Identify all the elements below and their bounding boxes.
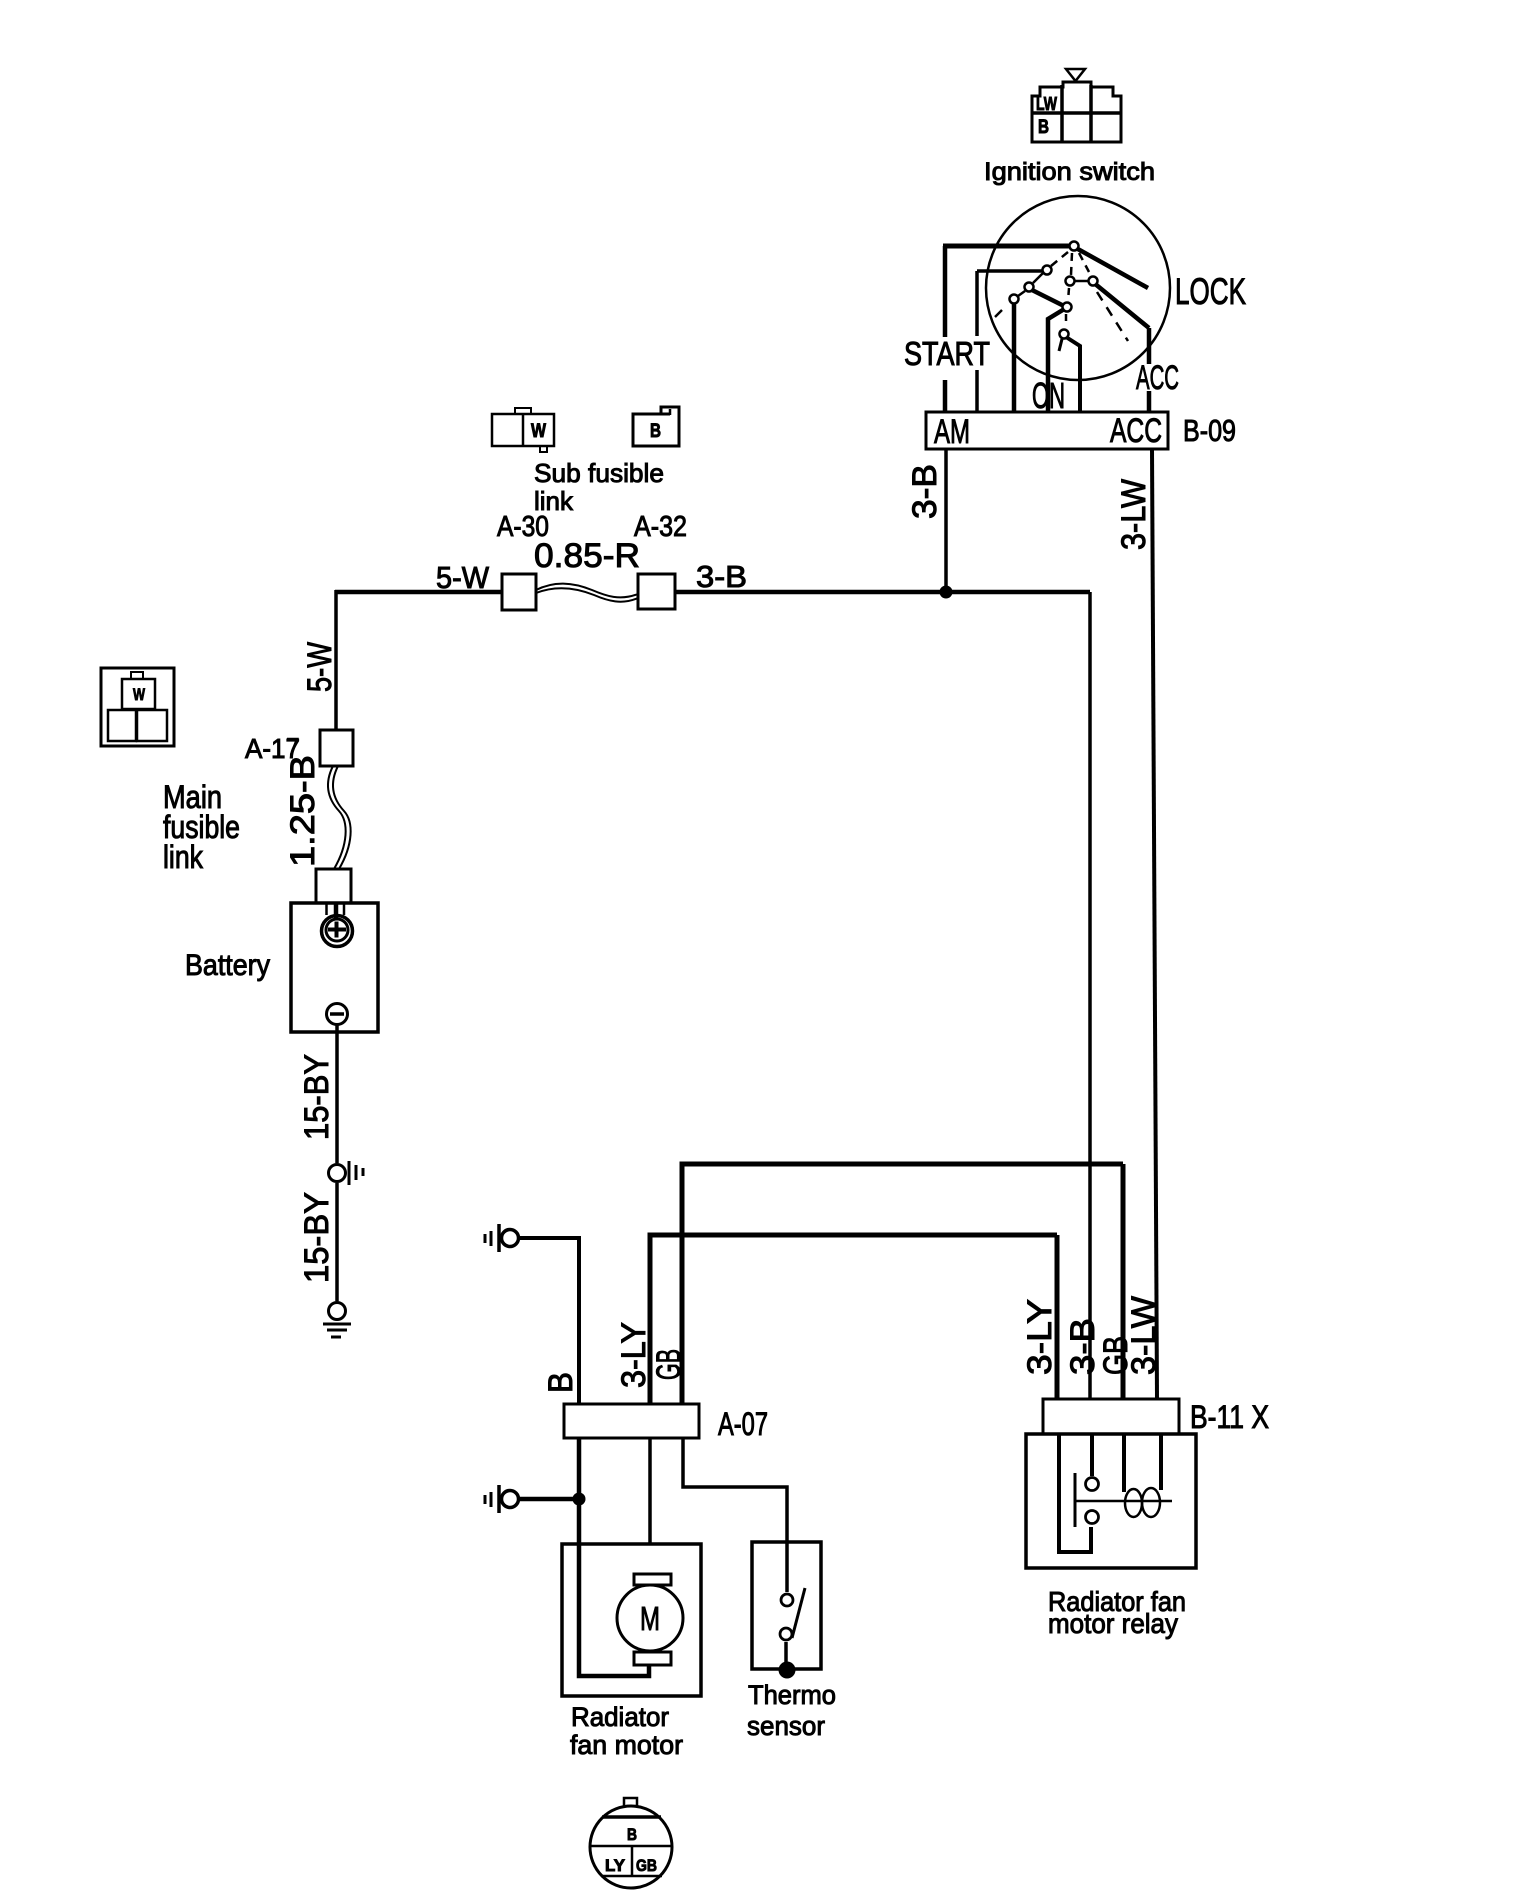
svg-text:B: B xyxy=(650,421,661,442)
svg-text:15-BY: 15-BY xyxy=(298,1054,336,1140)
wire to contact C2 xyxy=(977,269,1043,273)
wire B below A-07 xyxy=(577,1438,582,1546)
ignition switch body circle xyxy=(986,196,1170,380)
label Thermo sensor xyxy=(747,1680,836,1741)
junction node dot xyxy=(940,586,953,599)
wire lower contact to terminal xyxy=(784,1642,788,1662)
svg-text:3-B: 3-B xyxy=(696,559,747,594)
svg-text:ON: ON xyxy=(1032,375,1065,416)
wire GB to thermo sensor xyxy=(683,1438,787,1544)
thermo terminal dot xyxy=(779,1662,796,1679)
svg-text:15-BY: 15-BY xyxy=(298,1192,336,1283)
thermo sensor box xyxy=(752,1542,821,1669)
wire GB vertical to relay xyxy=(1121,1164,1126,1399)
svg-text:START: START xyxy=(904,335,990,372)
svg-text:B: B xyxy=(627,1825,637,1844)
wire AM vertical to B-09 (broken by START label) xyxy=(943,246,948,412)
svg-text:1.25-B: 1.25-B xyxy=(284,755,322,867)
wire ground to junction xyxy=(520,1497,579,1502)
contact C8 tail stub xyxy=(1059,339,1062,351)
relay wire 3-B to upper contact xyxy=(1090,1434,1094,1476)
svg-text:LW: LW xyxy=(1036,94,1057,114)
contact C8 xyxy=(1060,330,1069,339)
thermo switch upper contact xyxy=(781,1594,793,1606)
ACC pointer from contact C6 and vertical (broken by ACC label) xyxy=(1094,283,1149,412)
svg-text:link: link xyxy=(163,839,204,875)
fusible link A-30 box xyxy=(502,574,536,610)
radiator fan motor box xyxy=(562,1544,701,1696)
contact C1 xyxy=(1070,242,1079,251)
relay wire GB to coil xyxy=(1122,1434,1126,1492)
svg-text:ACC: ACC xyxy=(1110,412,1162,450)
dashed ACC position line xyxy=(1097,292,1128,341)
contact C3 xyxy=(1025,283,1034,292)
svg-text:A-32: A-32 xyxy=(634,511,687,543)
wire 3-LY horizontal and vertical to A-07 xyxy=(650,1235,1057,1404)
label Radiator fan motor xyxy=(570,1702,683,1760)
contact C4 xyxy=(1010,295,1019,304)
dashed link C5-C7 xyxy=(1068,288,1069,301)
wire 15-BY battery to ground xyxy=(335,1024,339,1163)
thermo switch blade xyxy=(792,1588,805,1638)
dashed tail from C4 xyxy=(995,310,1002,317)
connector A-07 box xyxy=(564,1404,699,1438)
wire 3-B from B-09 down to junction xyxy=(944,449,948,588)
wire 3-LW from B-09 down to relay xyxy=(1152,449,1157,1399)
connector (ignition switch) grid icon xyxy=(1032,82,1121,142)
wire 3-B vertical to relay xyxy=(1088,592,1092,1399)
svg-text:W: W xyxy=(531,421,546,442)
motor bottom terminal xyxy=(634,1652,671,1665)
wire AM feed (thick horizontal to contact) xyxy=(943,244,1071,249)
contact C7 xyxy=(1063,303,1072,312)
sub fusible link connector icon W xyxy=(492,408,554,452)
label Radiator fan motor relay xyxy=(1048,1586,1186,1639)
svg-text:B: B xyxy=(1038,117,1049,138)
relay upper contact xyxy=(1086,1478,1099,1491)
thermo switch lower contact xyxy=(780,1628,792,1640)
svg-text:Sub fusible: Sub fusible xyxy=(534,458,664,488)
svg-text:B-11 X: B-11 X xyxy=(1190,1399,1269,1435)
ground (body ground mid) xyxy=(329,1161,364,1185)
wire 15-BY to lower ground xyxy=(335,1183,339,1301)
svg-text:W: W xyxy=(133,685,146,704)
contact C2 xyxy=(1043,266,1052,275)
relay armature line xyxy=(1075,1500,1172,1503)
thin link C3-C4 xyxy=(1018,291,1025,296)
wire ON from contact C7 xyxy=(1048,308,1066,412)
svg-text:Thermo: Thermo xyxy=(748,1680,836,1710)
radiator fan motor relay K1 box xyxy=(1026,1434,1196,1568)
svg-text:B-09: B-09 xyxy=(1183,413,1236,448)
svg-text:3-LY: 3-LY xyxy=(615,1322,653,1388)
ground (fan motor lower) xyxy=(485,1485,519,1513)
svg-text:LY: LY xyxy=(605,1856,626,1875)
motor top terminal xyxy=(634,1574,671,1585)
battery B1 xyxy=(291,903,378,1032)
triangle marker on ignition connector xyxy=(1066,69,1085,81)
bottom connector circle icon xyxy=(589,1798,673,1888)
motor M1 circle xyxy=(617,1585,683,1651)
svg-text:5-W: 5-W xyxy=(301,642,339,692)
connector A-17 box xyxy=(320,730,353,766)
dashed line C1 to C2 xyxy=(1051,252,1068,266)
svg-text:3-B: 3-B xyxy=(906,464,944,519)
svg-text:ACC: ACC xyxy=(1136,359,1179,397)
ground (battery ground bottom) xyxy=(323,1303,351,1338)
fusible link A-32 box xyxy=(638,574,675,609)
contact C5 xyxy=(1066,277,1075,286)
stray scan mark xyxy=(287,739,297,755)
wire from contact C8 down to B-09 xyxy=(1066,337,1080,412)
dashed line C1 to C5 xyxy=(1071,253,1072,275)
svg-text:AM: AM xyxy=(934,413,970,451)
svg-text:GB: GB xyxy=(636,1856,657,1875)
relay wire 3-LY to lower contact xyxy=(1059,1434,1091,1552)
relay lower contact xyxy=(1086,1511,1099,1524)
svg-text:0.85-R: 0.85-R xyxy=(534,537,640,575)
ground (fan motor upper) xyxy=(485,1224,519,1252)
svg-text:B: B xyxy=(542,1372,580,1393)
svg-text:M: M xyxy=(640,1600,660,1637)
wire C4 vertical to B-09 xyxy=(1012,301,1017,412)
svg-text:LOCK: LOCK xyxy=(1175,271,1246,312)
connector B-11 X box xyxy=(1043,1399,1179,1434)
wire GB horizontal and vertical to A-07 xyxy=(682,1164,1123,1404)
wire 3-LY vertical to relay xyxy=(1055,1235,1060,1399)
wire 5-W vertical from battery xyxy=(334,590,338,730)
wire motor feed below A-07 xyxy=(648,1438,652,1574)
relay coil xyxy=(1125,1488,1160,1517)
svg-text:3-LY: 3-LY xyxy=(1021,1299,1059,1375)
relay wire 3-LW to coil xyxy=(1159,1434,1163,1490)
relay switch blade xyxy=(1074,1473,1077,1527)
junction node dot on B wire xyxy=(573,1493,586,1506)
svg-text:3-LW: 3-LW xyxy=(1125,1296,1163,1375)
wire B inside motor box xyxy=(579,1544,649,1676)
thin link C5-C6 xyxy=(1075,280,1088,283)
svg-text:link: link xyxy=(534,486,574,516)
svg-text:Ignition switch: Ignition switch xyxy=(984,158,1155,186)
svg-text:sensor: sensor xyxy=(747,1711,825,1741)
svg-text:motor relay: motor relay xyxy=(1048,1608,1178,1639)
LOCK pointer from contact C1 xyxy=(1076,248,1148,288)
battery terminal connector box xyxy=(316,869,351,904)
main battery feed horizontal wire xyxy=(335,590,1090,595)
label Sub fusible link xyxy=(534,458,664,516)
thick link C3-C7 xyxy=(1032,290,1064,306)
svg-text:Radiator: Radiator xyxy=(571,1702,669,1732)
svg-text:A-07: A-07 xyxy=(718,1406,768,1442)
sub fusible link connector icon B xyxy=(633,407,679,446)
main fusible link connector icon xyxy=(101,668,174,746)
svg-text:Battery: Battery xyxy=(185,949,270,982)
wire C2 vertical to B-09 (broken by START label) xyxy=(975,271,979,412)
svg-text:fan motor: fan motor xyxy=(570,1730,683,1760)
contact C6 xyxy=(1089,277,1098,286)
wire B from ground to A-07 xyxy=(520,1238,579,1404)
svg-text:5-W: 5-W xyxy=(436,560,490,595)
svg-text:GB: GB xyxy=(650,1349,688,1380)
connector B-09 box xyxy=(926,412,1168,449)
label Main fusible link xyxy=(163,779,240,875)
wavy fusible wire xyxy=(536,584,638,602)
svg-text:3-LW: 3-LW xyxy=(1115,479,1153,550)
wavy fusible wire to battery xyxy=(328,766,351,869)
dashed link C7-C8 xyxy=(1065,314,1068,327)
dashed line C1 to C6 xyxy=(1079,253,1089,272)
thin link C2-C3 xyxy=(1033,273,1043,283)
wire to thermo switch xyxy=(785,1542,789,1592)
